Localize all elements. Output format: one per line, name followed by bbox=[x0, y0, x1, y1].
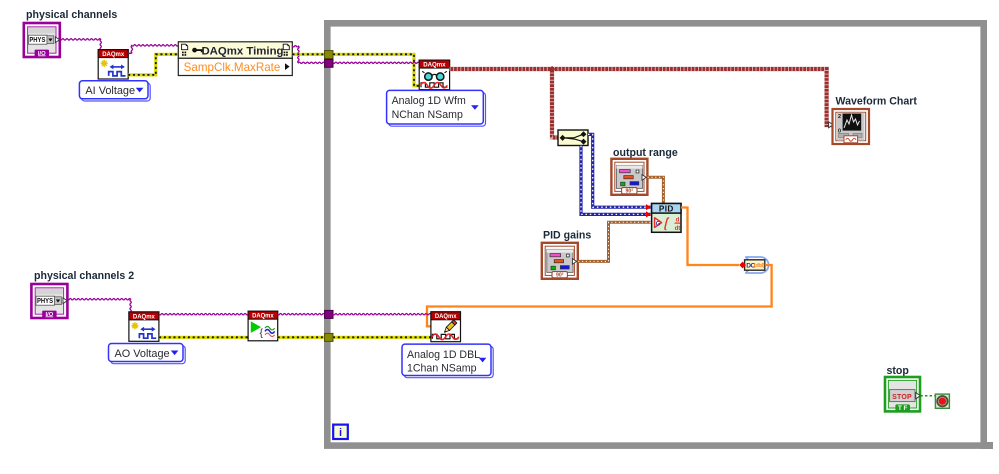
wire: array: conversion -> DAQmx Write (data) bbox=[427, 265, 772, 326]
terminal: loop iteration i bbox=[333, 425, 348, 440]
svg-text:PHYS: PHYS bbox=[29, 35, 45, 44]
svg-text:DAQmx: DAQmx bbox=[423, 62, 446, 69]
wire: waveform data: DAQmx Read -> Waveform Chart bbox=[450, 69, 832, 125]
wire: task: Create Channel (AI) -> DAQmx Timing bbox=[128, 45, 178, 54]
svg-text:i: i bbox=[339, 427, 342, 439]
svg-text:physical channels: physical channels bbox=[26, 9, 117, 21]
wire: task: Create Channel (AO) -> DAQmx Start bbox=[159, 314, 248, 315]
tunnel: task wire (bottom, purple) bbox=[325, 310, 333, 318]
coercion arrow: PID setpoint input bbox=[646, 204, 651, 210]
wire: task: DAQmx Start -> loop tunnel (bottom) bbox=[278, 314, 325, 315]
svg-text:PHYS: PHYS bbox=[37, 296, 53, 305]
svg-text:DAQmx: DAQmx bbox=[102, 51, 124, 58]
wire: task: physical channels -> DAQmx Create Channel (AI) bbox=[60, 39, 102, 50]
dropdown: Analog 1D Wfm NChan NSamp (polymorphic selector) bbox=[387, 90, 486, 126]
svg-text:output range: output range bbox=[613, 147, 678, 159]
wire: error: Create Channel (AO) -> DAQmx Start bbox=[159, 336, 248, 339]
control: physical channels 2 (I/O name terminal) bbox=[31, 284, 67, 318]
node: DAQmx Timing (SampClk.MaxRate) bbox=[178, 42, 292, 76]
node: DAQmx Write (Analog 1D DBL 1Chan NSamp) bbox=[431, 312, 461, 342]
svg-text:{: { bbox=[260, 327, 264, 339]
wire: task: DAQmx Timing -> loop tunnel bbox=[293, 46, 325, 64]
node: DAQmx Start Task bbox=[248, 311, 278, 341]
svg-text:90²: 90² bbox=[556, 272, 564, 278]
wire: task: tunnel -> DAQmx Write bbox=[333, 314, 431, 315]
svg-text:DAQmx Timing: DAQmx Timing bbox=[201, 45, 283, 57]
wire: cluster: output range -> PID (output range) bbox=[648, 177, 664, 203]
while loop resize corner bbox=[980, 442, 993, 449]
node: DAQmx Create Virtual Channel (AI) bbox=[98, 50, 128, 79]
control: output range (cluster) bbox=[611, 159, 647, 195]
svg-text:[dbl]: [dbl] bbox=[754, 263, 765, 269]
node: DAQmx Read (Analog 1D Wfm NChan NSamp) bbox=[419, 60, 449, 90]
svg-text:SampClk.MaxRate: SampClk.MaxRate bbox=[184, 61, 281, 74]
svg-text:Analog 1D Wfm: Analog 1D Wfm bbox=[392, 95, 466, 107]
svg-text:STOP: STOP bbox=[892, 394, 912, 401]
tunnel: task wire (top, purple) bbox=[325, 59, 333, 67]
dropdown: AO Voltage (instance selector) bbox=[109, 344, 186, 364]
node: PID.vi bbox=[652, 204, 681, 233]
svg-text:PID: PID bbox=[659, 205, 674, 214]
coercion arrow: PID process variable input bbox=[646, 211, 651, 217]
svg-text:T F: T F bbox=[898, 405, 907, 412]
svg-text:Waveform Chart: Waveform Chart bbox=[836, 96, 918, 108]
wire junction (waveform data) bbox=[549, 66, 556, 73]
tunnel: error wire (bottom, olive) bbox=[325, 333, 333, 341]
svg-text:1Chan NSamp: 1Chan NSamp bbox=[407, 363, 477, 375]
wire: array: index node -> PID (setpoint) bbox=[588, 134, 651, 207]
wire: waveform data branch: junction -> index node bbox=[552, 69, 558, 138]
control: PID gains (cluster) bbox=[542, 243, 578, 279]
wire: error: tunnel -> DAQmx Read bbox=[333, 54, 419, 86]
svg-text:PID gains: PID gains bbox=[543, 230, 591, 242]
wire: task: tunnel -> DAQmx Read bbox=[333, 62, 419, 63]
wire: boolean stop -> loop condition terminal bbox=[920, 395, 935, 397]
while loop border bbox=[327, 23, 983, 445]
terminal: loop condition (stop if true) bbox=[935, 394, 949, 408]
wire: cluster: PID gains -> PID bbox=[578, 222, 650, 261]
node: array index/split primitive bbox=[558, 130, 588, 146]
svg-text:DAQmx: DAQmx bbox=[435, 313, 457, 320]
wire: array: index node -> PID (process variable) bbox=[581, 146, 651, 215]
indicator: Waveform Chart bbox=[829, 109, 869, 144]
svg-text:2: 2 bbox=[838, 114, 841, 120]
node: DAQmx Create Virtual Channel (AO) bbox=[129, 312, 159, 341]
wire: scalar: PID output -> to-array conversion bbox=[681, 208, 739, 266]
svg-text:DAQmx: DAQmx bbox=[252, 313, 274, 320]
svg-text:dt: dt bbox=[675, 226, 681, 232]
svg-text:physical channels 2: physical channels 2 bbox=[34, 270, 134, 282]
wire: error: DAQmx Start -> loop tunnel (bottom) bbox=[278, 336, 325, 339]
dropdown: Analog 1D DBL 1Chan NSamp (polymorphic selector) bbox=[402, 344, 493, 378]
wire: error: tunnel -> DAQmx Write bbox=[333, 336, 431, 339]
svg-text:DAQmx: DAQmx bbox=[133, 313, 155, 320]
svg-text:stop: stop bbox=[887, 365, 910, 377]
wire: task: physical channels 2 -> DAQmx Create Channel (AO) bbox=[67, 299, 131, 312]
control: stop (boolean button) bbox=[885, 377, 920, 412]
svg-text:Analog 1D DBL: Analog 1D DBL bbox=[407, 349, 480, 361]
dropdown: AI Voltage (instance selector) bbox=[79, 81, 150, 101]
svg-text:G: G bbox=[656, 221, 661, 227]
svg-text:AI Voltage: AI Voltage bbox=[85, 85, 135, 97]
svg-text:90²: 90² bbox=[626, 188, 634, 194]
node: convert scalar to 1D array [dbl] bbox=[739, 257, 768, 273]
tunnel: error wire (top, olive) bbox=[325, 51, 333, 59]
wire: error: Create Channel (AI) -> DAQmx Timing bbox=[128, 54, 178, 75]
control: physical channels (I/O name terminal) bbox=[24, 23, 60, 57]
svg-text:NChan NSamp: NChan NSamp bbox=[392, 109, 463, 121]
svg-text:AO Voltage: AO Voltage bbox=[115, 348, 170, 360]
wire: error: DAQmx Timing -> loop tunnel bbox=[293, 53, 325, 56]
